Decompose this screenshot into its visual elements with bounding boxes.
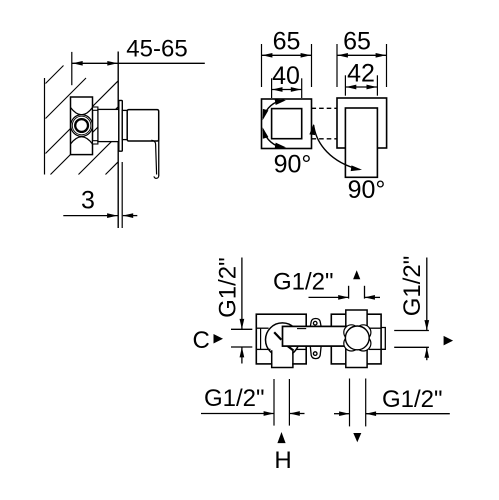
svg-text:G1/2": G1/2"	[399, 256, 426, 317]
C flow arrow	[214, 334, 224, 344]
body tab top	[93, 107, 98, 110]
dashed line bottom	[312, 138, 386, 140]
svg-text:45-65: 45-65	[126, 36, 187, 63]
right port ticks	[394, 330, 429, 332]
dim 42 line	[345, 86, 377, 88]
handle lever outer edge	[158, 140, 160, 176]
right port dim vertical lower	[426, 348, 428, 361]
svg-text:G1/2": G1/2"	[215, 257, 242, 318]
C port recess face	[260, 328, 262, 349]
wall left boundary	[44, 78, 46, 175]
right port dim vertical upper	[426, 258, 428, 331]
H flow arrow up	[277, 432, 285, 443]
svg-text:90°: 90°	[348, 176, 386, 204]
bottom-right flow arrow down	[353, 433, 361, 442]
cartridge stem sleeve	[98, 109, 119, 141]
rotation arc square1 to square2	[314, 125, 360, 170]
svg-text:40: 40	[272, 62, 300, 90]
bottom-right extension lines	[349, 379, 351, 427]
right block bore lines	[369, 327, 381, 329]
svg-text:G1/2": G1/2"	[382, 386, 443, 413]
wall face line	[117, 52, 119, 229]
right block	[331, 314, 381, 364]
dashed line top (handle first position)	[312, 107, 386, 109]
dim 65 #1 line	[262, 54, 312, 56]
rotation arc lower around square1	[263, 130, 284, 148]
dim 65 #1 extension lines	[261, 44, 263, 87]
right outlet stub	[381, 328, 385, 350]
svg-text:90°: 90°	[274, 151, 312, 179]
rotation arc upper around square1	[263, 100, 284, 118]
C port dim vertical line upper	[241, 258, 243, 330]
dim 65 #2 line	[337, 54, 387, 56]
dim 45-65 extension line	[71, 52, 73, 85]
square1 inner (handle front)	[272, 109, 302, 139]
funnel diagonal left	[274, 332, 281, 340]
square2 handle column rotated down	[345, 108, 377, 177]
handle body	[127, 110, 159, 141]
cartridge bar	[283, 326, 361, 346]
wall hatch lines	[46, 66, 118, 175]
svg-text:65: 65	[343, 28, 371, 56]
right flow arrow	[444, 336, 454, 346]
svg-text:3: 3	[81, 187, 95, 215]
dome circle left block	[266, 323, 300, 357]
bore line over bar right of dome	[297, 328, 306, 330]
square1 outer (escutcheon front)	[262, 99, 312, 149]
cartridge circles	[71, 115, 93, 137]
square2 outer	[337, 98, 387, 148]
extension line of plate front (for dim 3)	[121, 162, 123, 228]
H stub mask	[272, 351, 292, 367]
mounting ear bottom	[310, 346, 321, 359]
top port dim line	[309, 296, 349, 298]
handle stem	[122, 110, 127, 139]
dim 42 extension lines	[344, 75, 346, 95]
dim 40 line	[272, 89, 302, 91]
H stub outline	[272, 350, 293, 367]
left block	[256, 314, 306, 364]
H dim line	[201, 413, 274, 415]
handle lever tip	[154, 176, 159, 178]
C port ticks	[231, 328, 252, 330]
ear hole bottom	[313, 352, 317, 356]
dim 40 extension lines	[271, 78, 273, 98]
petal circles	[344, 325, 359, 340]
big circle right block	[345, 326, 369, 350]
svg-text:C: C	[193, 327, 210, 354]
left block bore lines	[256, 327, 268, 329]
svg-text:42: 42	[347, 60, 375, 88]
top port dim ticks	[348, 286, 350, 299]
right column (top+bottom ports boss)	[346, 310, 367, 368]
svg-text:G1/2": G1/2"	[273, 269, 334, 296]
dim 3 line	[63, 215, 117, 217]
dim 45-65 line	[72, 62, 205, 64]
svg-text:65: 65	[273, 28, 301, 56]
body spool arcs	[71, 108, 93, 115]
bottom-right dim line	[334, 413, 349, 415]
escutcheon plate	[119, 100, 123, 151]
funnel diagonal right	[287, 346, 294, 351]
dim 65 #2 extension lines	[336, 44, 338, 87]
body tab bottom	[93, 141, 98, 144]
top flow arrow up	[353, 270, 360, 279]
mounting ear top	[310, 319, 321, 328]
ear hole top	[313, 321, 317, 325]
handle lever inner edge	[151, 140, 156, 174]
valve body (in-wall)	[71, 97, 93, 155]
svg-text:H: H	[274, 447, 291, 474]
C port dim vertical line lower	[241, 347, 243, 363]
H port extension lines	[273, 379, 275, 426]
svg-text:G1/2": G1/2"	[204, 385, 265, 412]
